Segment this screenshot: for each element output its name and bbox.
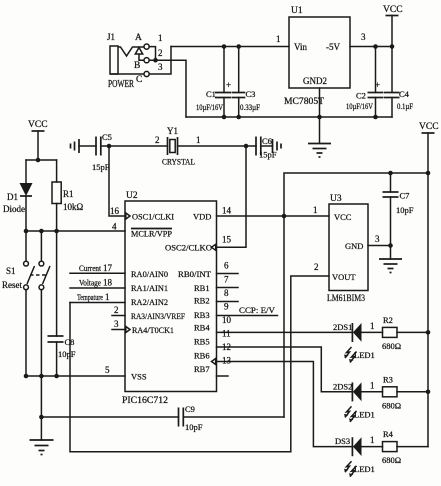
svg-text:10: 10 <box>222 315 232 325</box>
emission arrows DS2 <box>344 406 357 422</box>
svg-text:RB7: RB7 <box>194 364 210 374</box>
junction C8 VSS <box>54 374 59 379</box>
svg-text:13: 13 <box>222 356 232 366</box>
power VCC top right <box>383 5 403 47</box>
power VCC left <box>28 120 48 160</box>
svg-text:U3: U3 <box>330 194 342 204</box>
crystal Y1 <box>168 137 178 155</box>
svg-text:GND2: GND2 <box>303 76 327 86</box>
wire RA0 Current input <box>70 272 125 274</box>
svg-text:RA0/AIN0: RA0/AIN0 <box>131 269 168 279</box>
svg-text:1: 1 <box>158 33 163 43</box>
resistor R3 <box>383 387 429 397</box>
svg-text:LED1: LED1 <box>354 350 375 360</box>
svg-text:2: 2 <box>314 262 319 272</box>
pin name OSC2/CLKO <box>165 243 216 253</box>
capacitor C3 <box>232 47 245 118</box>
svg-text:3: 3 <box>361 32 366 42</box>
junction C4 top <box>390 44 395 49</box>
svg-text:PIC16C712: PIC16C712 <box>122 395 168 405</box>
wire U3 VOUT to riser <box>291 276 329 452</box>
wire J1 pin2 to ground rail <box>149 60 186 117</box>
svg-text:RB6: RB6 <box>194 351 210 361</box>
svg-text:1: 1 <box>370 321 375 331</box>
svg-text:15pF: 15pF <box>92 162 110 172</box>
wire RB1 stub <box>217 287 239 289</box>
wire VCC rail to U2 VDD branch <box>284 173 428 417</box>
pin name RA4/T0CK1 <box>126 325 174 335</box>
svg-text:RB1: RB1 <box>194 283 210 293</box>
svg-text:VCC: VCC <box>28 120 48 130</box>
svg-text:9: 9 <box>224 302 229 312</box>
wire VSS row <box>26 375 125 377</box>
wire RB6 to LED DS3 <box>217 362 353 447</box>
resistor R1 <box>52 160 61 231</box>
svg-text:DS3: DS3 <box>335 436 350 446</box>
svg-text:RA1/AIN1: RA1/AIN1 <box>131 283 168 293</box>
svg-text:Current: Current <box>79 263 102 273</box>
emission arrows DS3 <box>344 461 357 477</box>
LED DS3 <box>352 437 382 456</box>
svg-text:680Ω: 680Ω <box>382 455 401 465</box>
wire RB7 stub <box>217 375 229 377</box>
capacitor C9 <box>179 408 184 427</box>
capacitor C5 <box>96 137 101 156</box>
wire D1 R1 top rail <box>26 159 57 161</box>
svg-text:10pF: 10pF <box>58 349 76 359</box>
svg-text:VCC: VCC <box>383 5 403 15</box>
svg-text:12: 12 <box>222 342 231 352</box>
connector J1 power jack <box>110 44 149 77</box>
svg-text:2: 2 <box>158 48 163 58</box>
svg-text:VOUT: VOUT <box>332 272 356 282</box>
switch S1 reset <box>24 231 50 376</box>
wire Tempature down and along bottom <box>70 303 291 452</box>
svg-text:C3: C3 <box>246 89 256 99</box>
capacitor C4 <box>384 47 400 118</box>
pin name RB6 <box>194 351 216 365</box>
svg-text:10µF/16V: 10µF/16V <box>346 102 373 111</box>
junction S1 pole b <box>39 229 44 234</box>
svg-text:1: 1 <box>105 292 110 302</box>
emission arrows DS1 <box>344 347 357 363</box>
junction C2 bottom <box>373 115 378 120</box>
wire J1 pin3 up to input net <box>149 47 171 75</box>
svg-text:14: 14 <box>222 206 232 216</box>
junction OSC1 tap <box>107 144 112 149</box>
wire RA3 stub <box>112 315 125 317</box>
resistor R2 <box>383 327 429 337</box>
svg-text:C6: C6 <box>262 136 272 146</box>
svg-text:S1: S1 <box>6 266 16 276</box>
pin name MCLR/VPP with overline <box>131 229 172 239</box>
svg-text:RA4/T0CK1: RA4/T0CK1 <box>132 325 174 335</box>
svg-text:1: 1 <box>313 205 318 215</box>
svg-text:2DS1: 2DS1 <box>333 322 352 332</box>
svg-text:1: 1 <box>370 435 375 445</box>
svg-text:C7: C7 <box>400 191 410 201</box>
wire RB4 to LED DS1 <box>217 331 353 333</box>
sensor U3 LM61BIM3 <box>329 204 368 291</box>
svg-text:RA2/AIN2: RA2/AIN2 <box>131 297 168 307</box>
ground bottom left <box>30 440 54 455</box>
svg-text:11: 11 <box>222 329 231 339</box>
svg-text:VCC: VCC <box>334 212 352 222</box>
svg-text:16: 16 <box>110 206 120 216</box>
svg-text:Y1: Y1 <box>167 126 178 136</box>
svg-text:A: A <box>135 33 142 43</box>
power VCC mid right <box>419 122 439 173</box>
wire U1 GND2 down <box>319 88 321 143</box>
svg-text:-5V: -5V <box>326 42 340 52</box>
svg-text:U2: U2 <box>126 191 138 201</box>
svg-text:J1: J1 <box>107 32 115 42</box>
ground below U1 <box>308 144 331 158</box>
wire VSS to bottom rail <box>40 376 42 440</box>
wire RB2 stub <box>217 301 239 303</box>
svg-text:17: 17 <box>103 263 113 273</box>
svg-text:18: 18 <box>103 278 113 288</box>
svg-text:OSC1/CLKI: OSC1/CLKI <box>132 212 174 222</box>
svg-text:C1: C1 <box>206 89 216 99</box>
svg-text:3: 3 <box>375 234 380 244</box>
junction VCC tap <box>36 158 41 163</box>
svg-text:MCLR/VPP: MCLR/VPP <box>131 229 172 239</box>
junction R2 right <box>426 330 431 335</box>
pin name OSC1/CLKI <box>126 212 174 222</box>
svg-text:Diode: Diode <box>3 204 25 214</box>
junction U1 GND2 <box>317 115 322 120</box>
svg-text:C9: C9 <box>185 404 195 414</box>
svg-text:RB3: RB3 <box>194 310 210 320</box>
capacitor C6 <box>256 137 261 156</box>
junction row B left <box>39 415 44 420</box>
junction R3 right <box>426 390 431 395</box>
wire ground rail top <box>186 116 392 118</box>
svg-text:CCP: E/V: CCP: E/V <box>239 305 276 315</box>
junction VCC rail corner <box>426 171 431 176</box>
svg-text:7: 7 <box>224 275 229 285</box>
junction C2 top <box>373 44 378 49</box>
svg-text:+: + <box>226 80 231 90</box>
svg-text:+: + <box>375 80 380 90</box>
junction C1 bottom <box>222 115 227 120</box>
ground below C7 <box>379 246 402 273</box>
junction C3 top <box>236 44 241 49</box>
wire U3 GND to C7 <box>368 245 391 247</box>
wire RB5 to LED DS2 <box>217 347 353 392</box>
svg-text:RB0/INT: RB0/INT <box>178 269 212 279</box>
wire OSC1 tap down to pin16 <box>109 146 125 216</box>
junction J1 pins 1-2 <box>153 58 158 63</box>
sideways ground right of C6 <box>273 139 282 153</box>
svg-text:LED1: LED1 <box>354 464 375 474</box>
wire row B to C9 <box>41 416 178 418</box>
svg-text:0.33µF: 0.33µF <box>240 103 260 112</box>
svg-text:RA3/AIN3/VREF: RA3/AIN3/VREF <box>131 311 185 321</box>
svg-text:POWER: POWER <box>108 79 134 90</box>
LED DS1 <box>352 323 382 342</box>
wire U1 output pin 3 <box>350 46 392 48</box>
wire C5 to crystal <box>101 145 168 147</box>
junction C7 top <box>388 171 393 176</box>
svg-text:Reset: Reset <box>2 280 22 290</box>
wire ground to C5 <box>79 145 96 147</box>
junction U3 GND C7 <box>388 243 393 248</box>
svg-text:CRYSTAL: CRYSTAL <box>162 157 195 167</box>
svg-text:6: 6 <box>224 261 229 271</box>
svg-text:0.1µF: 0.1µF <box>397 102 413 111</box>
svg-text:10pF: 10pF <box>185 422 203 432</box>
svg-text:15pF: 15pF <box>259 150 277 160</box>
svg-text:2: 2 <box>114 305 119 315</box>
wire VDD pin14 to U3 VCC <box>217 215 330 217</box>
wire RB3 CCP <box>217 315 278 317</box>
capacitor C8 <box>48 231 64 376</box>
wire J1 pin1 to pin2 junction <box>149 47 155 61</box>
svg-text:680Ω: 680Ω <box>382 341 401 351</box>
svg-text:1: 1 <box>196 135 201 145</box>
resistor R4 <box>383 442 429 452</box>
wire VCC right rail down <box>427 173 429 447</box>
svg-text:4: 4 <box>112 222 117 232</box>
diode D1 <box>20 160 33 231</box>
svg-text:3: 3 <box>158 62 163 72</box>
wire crystal to C6 <box>178 145 257 147</box>
sideways ground left of C5 <box>71 139 80 153</box>
junction R1 bottom <box>54 229 59 234</box>
svg-text:680Ω: 680Ω <box>382 400 401 410</box>
svg-text:U1: U1 <box>291 6 303 16</box>
svg-text:VSS: VSS <box>131 372 147 382</box>
svg-text:R1: R1 <box>63 189 74 199</box>
svg-text:VDD: VDD <box>193 212 211 222</box>
capacitor C1 electrolytic <box>215 47 232 118</box>
junction S1 b VSS <box>39 374 44 379</box>
svg-text:C5: C5 <box>102 132 112 142</box>
LED DS2 <box>352 382 382 401</box>
wire C6 to ground <box>261 145 273 147</box>
svg-text:2DS2: 2DS2 <box>333 381 352 391</box>
microcontroller U2 PIC16C712 <box>125 201 217 392</box>
svg-text:LM61BIM3: LM61BIM3 <box>327 293 365 303</box>
svg-text:OSC2/CLKO: OSC2/CLKO <box>165 243 212 253</box>
junction OSC2 tap <box>244 144 249 149</box>
svg-text:Tempature: Tempature <box>77 292 103 302</box>
wire RA1 Voltage input <box>70 287 125 289</box>
wire RB0 stub <box>217 273 239 275</box>
wire MCLR rail <box>26 230 125 232</box>
svg-text:VCC: VCC <box>419 122 439 132</box>
wire OSC2 tap down to pin15 <box>217 146 247 247</box>
svg-text:5: 5 <box>105 365 110 375</box>
svg-text:3: 3 <box>114 319 119 329</box>
svg-text:C2: C2 <box>356 91 366 101</box>
regulator U1 MC7805T <box>289 17 350 88</box>
capacitor C2 electrolytic <box>368 47 384 118</box>
svg-text:10µF/16V: 10µF/16V <box>196 103 223 112</box>
svg-text:R3: R3 <box>383 374 393 384</box>
svg-text:RB2: RB2 <box>194 296 210 306</box>
svg-text:R2: R2 <box>383 315 393 325</box>
junction C1 top <box>222 44 227 49</box>
svg-text:Vin: Vin <box>294 42 307 52</box>
svg-text:10kΩ: 10kΩ <box>63 202 84 212</box>
svg-text:15: 15 <box>222 235 232 245</box>
svg-text:Voltage: Voltage <box>79 278 101 288</box>
svg-text:1: 1 <box>370 380 375 390</box>
svg-text:C4: C4 <box>399 89 410 99</box>
wire input net to U1 Vin <box>171 46 289 48</box>
junction VDD riser <box>282 214 287 219</box>
svg-text:10pF: 10pF <box>396 205 414 215</box>
svg-text:RB4: RB4 <box>194 323 210 333</box>
wire RA4 stub <box>112 329 125 331</box>
junction C3 bottom <box>236 115 241 120</box>
junction S1 a VSS <box>24 374 29 379</box>
capacitor C7 <box>383 173 399 246</box>
svg-text:B: B <box>134 61 140 71</box>
svg-text:GND: GND <box>345 241 363 251</box>
svg-text:C: C <box>136 75 142 85</box>
svg-text:LED1: LED1 <box>354 409 375 419</box>
svg-text:R4: R4 <box>383 429 394 439</box>
svg-text:D1: D1 <box>7 192 18 202</box>
wire RA2 Tempature input <box>70 302 125 304</box>
junction D1 bottom <box>24 229 29 234</box>
wire C9 to VDD riser <box>183 416 284 418</box>
svg-text:RB5: RB5 <box>194 337 210 347</box>
svg-text:8: 8 <box>224 288 229 298</box>
svg-text:MC7805T: MC7805T <box>284 96 325 106</box>
svg-text:2: 2 <box>155 135 160 145</box>
svg-text:1: 1 <box>276 34 281 44</box>
